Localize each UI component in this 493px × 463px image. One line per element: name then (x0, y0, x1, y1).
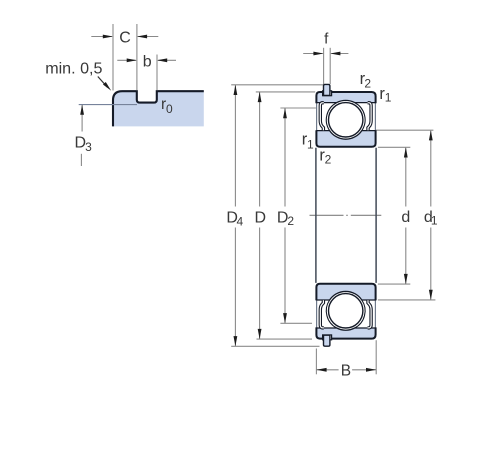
svg-text:d: d (401, 209, 410, 226)
svg-text:B: B (341, 362, 351, 379)
svg-text:4: 4 (237, 215, 244, 229)
svg-text:C: C (119, 29, 131, 46)
svg-text:1: 1 (385, 91, 392, 105)
svg-text:1: 1 (431, 213, 438, 227)
svg-text:b: b (143, 54, 152, 71)
svg-text:2: 2 (325, 153, 332, 167)
svg-text:0: 0 (166, 102, 173, 116)
svg-text:1: 1 (307, 137, 314, 151)
svg-text:min. 0,5: min. 0,5 (45, 60, 102, 78)
svg-text:3: 3 (85, 140, 92, 154)
svg-text:2: 2 (287, 214, 294, 228)
svg-text:2: 2 (364, 76, 371, 90)
svg-text:D: D (255, 209, 267, 226)
svg-text:f: f (324, 30, 329, 47)
